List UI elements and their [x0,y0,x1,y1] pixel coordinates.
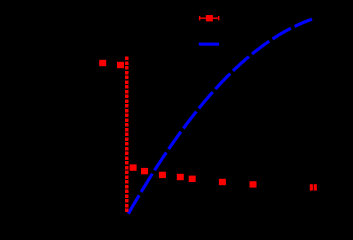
data point P9 [250,181,257,187]
data point P4 [141,168,148,174]
red dotted threshold line [125,57,128,214]
data point P1 [99,60,106,66]
data point P3 [130,164,137,170]
blue fit curve (dashed) [128,19,312,214]
data point P7 [189,176,196,182]
data point P10 (cut by right plot border) [310,184,317,190]
data point P8 [219,179,226,185]
data point P5 [159,172,166,178]
data point P6 [177,174,184,180]
legend: data sample with x-error bar [199,16,219,21]
legend: fit curve sample [199,43,219,46]
right plot border over P10 [312,182,314,192]
data point P2 [117,62,124,68]
